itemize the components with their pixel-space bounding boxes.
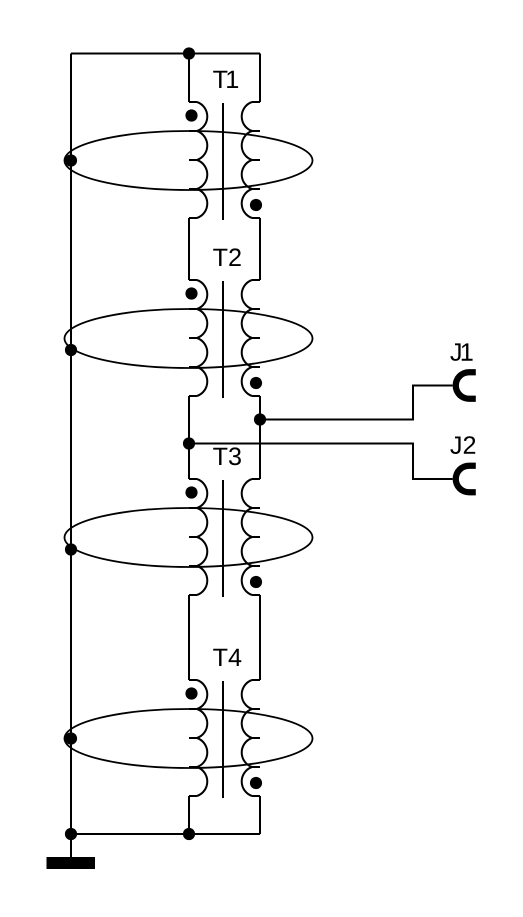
phase dot T2 secondary: [250, 377, 262, 389]
wire: J2 branch: [189, 444, 453, 480]
ground: [47, 857, 96, 869]
transformer T1 secondary winding: [242, 102, 260, 218]
phase dot T4 primary: [185, 687, 197, 699]
junction dot: T2 loop to ground rail: [65, 344, 77, 356]
transformer T3 primary winding: [189, 479, 207, 595]
wire: left ground rail: [70, 54, 72, 835]
phase dot T2 primary: [185, 287, 197, 299]
wire: bottom horizontal: [71, 833, 260, 835]
phase dot T1 primary: [185, 109, 197, 121]
transformer T3 secondary winding: [242, 479, 260, 595]
jack J1 label: [450, 343, 472, 361]
phase dot T3 primary: [185, 486, 197, 498]
wire: T4 secondary bottom lead: [259, 796, 261, 834]
junction dot: T1 loop to ground rail: [65, 154, 77, 166]
jack J1: [453, 369, 476, 402]
wire: ground stem: [70, 834, 72, 857]
wire: T2-T3 left lead: [188, 396, 190, 479]
link loop winding of T1: [65, 131, 313, 190]
wire: T1-T2 left lead: [188, 218, 190, 280]
transformer T4 secondary winding: [242, 680, 260, 796]
junction dot: rail / bottom wire: [65, 828, 77, 840]
transformer T2 primary winding: [189, 280, 207, 396]
link loop winding of T3: [65, 508, 313, 567]
transformer T3 label: [213, 447, 241, 465]
transformer T1 core: [222, 103, 224, 220]
wire: T1 secondary top lead: [259, 54, 261, 103]
junction dot: J1 tap on right lead: [254, 413, 266, 425]
wire: J1 branch: [260, 386, 453, 420]
transformer T4 primary winding: [189, 680, 207, 796]
wire: T1-T2 right lead: [259, 218, 261, 280]
wire: T3-T4 left lead: [188, 595, 190, 680]
wire: T1 primary top lead: [188, 54, 190, 103]
junction dot: T4 primary lead / bottom wire: [183, 828, 195, 840]
transformer T2 secondary winding: [242, 280, 260, 396]
transformer T3 core: [222, 480, 224, 597]
phase dot T3 secondary: [250, 576, 262, 588]
jack J2 label: [450, 436, 475, 454]
link loop winding of T2: [65, 309, 313, 368]
junction dot: T3 loop to ground rail: [65, 543, 77, 555]
junction dot: J2 tap on left lead: [183, 437, 195, 449]
wire: top horizontal: [71, 53, 260, 55]
junction dot: top wire / T1 primary lead: [183, 47, 195, 59]
jack J2: [453, 463, 476, 496]
wire: T4 primary bottom lead: [188, 796, 190, 834]
transformer T1 primary winding: [189, 102, 207, 218]
wire: T2-T3 right lead: [259, 396, 261, 479]
transformer T4 core: [222, 681, 224, 798]
junction dot: T4 loop to ground rail: [65, 732, 77, 744]
wire: T3-T4 right lead: [259, 595, 261, 680]
transformer T1 label: [213, 71, 238, 88]
transformer T2 label: [213, 248, 241, 266]
phase dot T4 secondary: [250, 777, 262, 789]
transformer T4 label: [213, 649, 241, 666]
transformer T2 core: [222, 281, 224, 398]
link loop winding of T4: [65, 709, 313, 768]
phase dot T1 secondary: [250, 199, 262, 211]
